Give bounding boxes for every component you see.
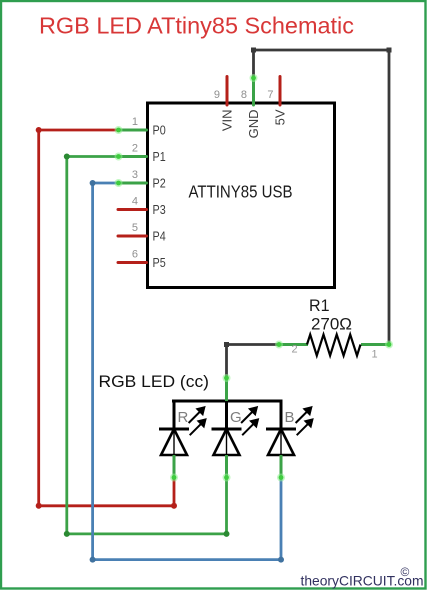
svg-text:R: R — [178, 409, 189, 426]
pin 9 VIN — [214, 77, 235, 132]
svg-text:R1: R1 — [309, 296, 330, 315]
wire P1 to LED G anode (green) — [64, 153, 231, 537]
LED G — [212, 401, 258, 480]
pin 4 P3 — [118, 196, 166, 218]
LED R — [159, 401, 205, 480]
svg-text:7: 7 — [267, 89, 273, 101]
svg-text:GND: GND — [246, 110, 261, 139]
pin 8 GND — [241, 77, 261, 138]
wire GND to R1 pin 1 (black) — [250, 48, 394, 349]
svg-text:B: B — [285, 409, 295, 426]
svg-text:2: 2 — [291, 344, 297, 356]
svg-text:P3: P3 — [153, 202, 166, 217]
svg-text:RGB LED ATtiny85 Schematic: RGB LED ATtiny85 Schematic — [39, 13, 354, 39]
LED B — [266, 401, 312, 480]
wire P0 to LED R anode (red) — [36, 126, 178, 509]
svg-text:6: 6 — [132, 249, 138, 261]
svg-text:P5: P5 — [153, 255, 166, 270]
wire R1 pin 2 to LED common cathode (black) — [223, 341, 284, 383]
svg-text:theoryCIRCUIT.com: theoryCIRCUIT.com — [301, 573, 424, 589]
wire P2 to LED B anode (blue) — [90, 179, 285, 563]
svg-text:8: 8 — [241, 89, 247, 101]
pin 3 P2 — [118, 169, 166, 191]
RGB LED LED1 — [99, 373, 313, 480]
common cathode bus — [172, 376, 283, 401]
svg-text:P1: P1 — [153, 149, 166, 164]
svg-text:3: 3 — [132, 169, 138, 181]
pin 7 5V — [267, 77, 287, 126]
svg-text:9: 9 — [214, 89, 220, 101]
pin 5 P4 — [118, 222, 166, 244]
svg-text:P4: P4 — [153, 229, 166, 244]
svg-text:RGB LED (cc): RGB LED (cc) — [99, 373, 210, 391]
svg-text:VIN: VIN — [220, 110, 235, 132]
pin 2 P1 — [118, 143, 166, 165]
resistor R1 — [279, 296, 389, 361]
svg-text:G: G — [230, 409, 242, 426]
IC U1 ATTINY85 USB — [148, 103, 335, 288]
pin 1 P0 — [118, 116, 166, 138]
svg-text:ATTINY85 USB: ATTINY85 USB — [189, 182, 293, 202]
svg-text:1: 1 — [371, 349, 377, 361]
svg-text:2: 2 — [132, 143, 138, 155]
watermark theoryCIRCUIT.com — [301, 565, 424, 589]
svg-text:5V: 5V — [273, 109, 288, 125]
svg-text:270Ω: 270Ω — [311, 314, 352, 333]
svg-text:P0: P0 — [153, 123, 166, 138]
svg-text:P2: P2 — [153, 176, 166, 191]
svg-text:1: 1 — [132, 116, 138, 128]
svg-text:5: 5 — [132, 222, 138, 234]
pin 6 P5 — [118, 249, 166, 271]
svg-text:4: 4 — [132, 196, 138, 208]
